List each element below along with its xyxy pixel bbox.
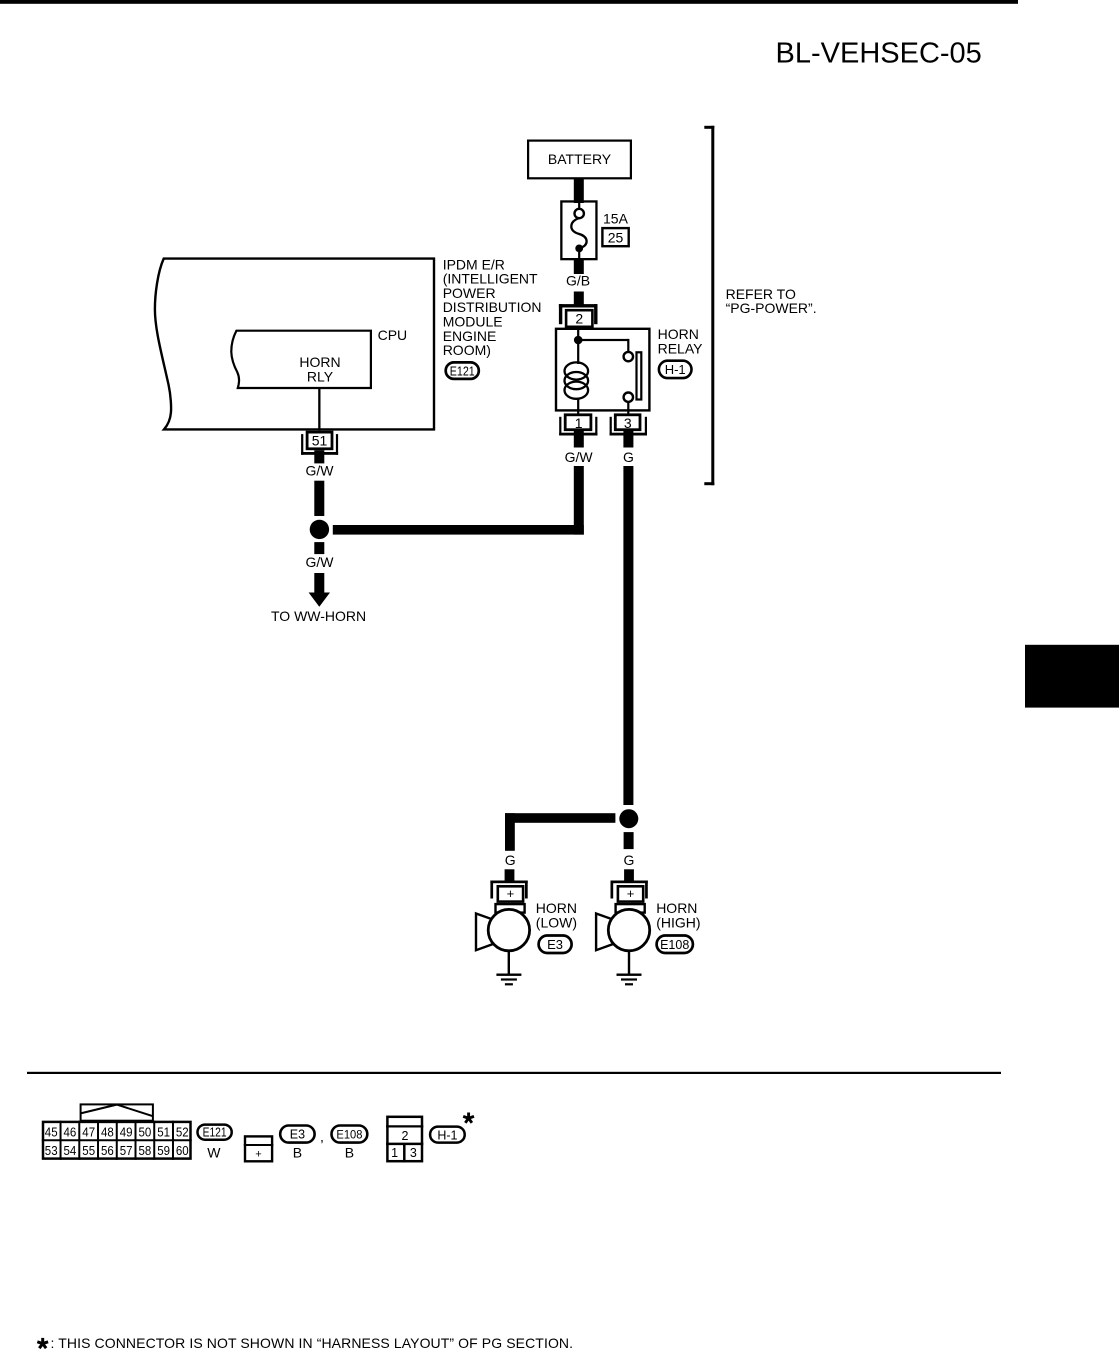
svg-text:50: 50: [139, 1125, 152, 1140]
svg-text:46: 46: [64, 1125, 77, 1140]
node dot: [574, 336, 583, 345]
IPDM E/R box: [155, 259, 434, 430]
refer-to label: [726, 286, 817, 316]
battery: [528, 141, 631, 179]
svg-text:55: 55: [82, 1143, 95, 1158]
svg-text:E3: E3: [290, 1128, 305, 1142]
ground (horn high): [617, 952, 642, 986]
refer-to bracket: [704, 126, 714, 485]
ground (horn low): [496, 952, 521, 986]
horn relay box: [556, 328, 649, 414]
horn high connector (+): [611, 881, 648, 902]
horizontal wire to junction (thick): [333, 525, 584, 535]
svg-text:BATTERY: BATTERY: [548, 151, 612, 167]
svg-text:E121: E121: [450, 364, 475, 378]
wire pin1 down to corner (thick): [574, 466, 584, 535]
svg-text:E108: E108: [336, 1128, 362, 1142]
svg-text:48: 48: [101, 1125, 114, 1140]
arrow to WW-HORN: [309, 573, 330, 607]
svg-text:15A: 15A: [603, 211, 629, 227]
connector code oval H-1 (legend): [430, 1127, 465, 1143]
wire stub below pin 3: [623, 431, 633, 448]
asterisk star (legend): [463, 1113, 474, 1123]
svg-text:57: 57: [120, 1143, 133, 1158]
svg-text:56: 56: [101, 1143, 114, 1158]
svg-text:58: 58: [139, 1143, 152, 1158]
svg-text:25: 25: [608, 229, 624, 245]
svg-text:+: +: [507, 886, 515, 901]
svg-text:H-1: H-1: [665, 362, 686, 377]
dashed wire below junction A: [314, 542, 324, 554]
svg-text:G: G: [624, 852, 635, 868]
fuse 15A: [561, 201, 596, 260]
svg-text:3: 3: [410, 1146, 417, 1160]
svg-text:H-1: H-1: [437, 1128, 457, 1142]
svg-text:59: 59: [157, 1143, 170, 1158]
svg-text:49: 49: [120, 1125, 133, 1140]
IPDM E/R name label: [443, 256, 542, 358]
fuse number box 25: [602, 228, 628, 246]
svg-text:54: 54: [64, 1143, 77, 1158]
junction dot B: [619, 809, 638, 828]
svg-text:3: 3: [624, 415, 632, 431]
svg-text:B: B: [345, 1144, 354, 1160]
horn connector legend (+): [244, 1136, 273, 1161]
svg-text:RELAY: RELAY: [658, 340, 704, 356]
svg-text:51: 51: [157, 1125, 170, 1140]
connector terminal 2 (horn relay): [559, 304, 598, 327]
footnote star: [37, 1338, 48, 1348]
svg-text:G: G: [623, 449, 634, 465]
wire fuse down (thick): [574, 259, 584, 274]
svg-text:G/W: G/W: [306, 554, 335, 570]
svg-text:1: 1: [575, 415, 583, 431]
svg-text:53: 53: [45, 1143, 58, 1158]
svg-text:RLY: RLY: [307, 368, 334, 384]
svg-text:45: 45: [45, 1125, 58, 1140]
svg-text:2: 2: [402, 1129, 409, 1143]
relay switch contact: [578, 339, 628, 341]
svg-text:52: 52: [176, 1125, 189, 1140]
svg-text:TO WW-HORN: TO WW-HORN: [271, 608, 366, 624]
HORN RLY label: [299, 354, 340, 384]
connector code oval E108 (legend): [332, 1126, 368, 1143]
svg-text:E3: E3: [547, 937, 563, 952]
CPU inner box: [231, 331, 371, 388]
wire pin3 down long (thick): [623, 466, 633, 805]
wire stub to horn high connector: [624, 869, 634, 881]
horn high label: [656, 900, 700, 930]
wire conn2 to node: [577, 328, 579, 340]
header bar: [0, 0, 1018, 4]
svg-text:CPU: CPU: [378, 327, 408, 343]
corner wire down to horn low: [505, 813, 515, 851]
svg-text:51: 51: [312, 433, 328, 449]
connector code oval E3: [539, 936, 572, 954]
connector code oval E121 (legend): [198, 1125, 232, 1140]
horn low label: [536, 900, 577, 930]
relay pin 1 connector: [559, 415, 597, 436]
svg-text:: THIS CONNECTOR IS NOT SHOWN: : THIS CONNECTOR IS NOT SHOWN IN “HARNES…: [51, 1335, 574, 1351]
section tab (page edge): [1025, 645, 1119, 708]
svg-text:47: 47: [82, 1125, 95, 1140]
wire CPU to pin 51 (thin): [318, 388, 320, 431]
relay name label: [658, 326, 704, 356]
svg-text:60: 60: [176, 1143, 189, 1158]
connector code oval E3 (legend): [280, 1126, 314, 1143]
wire G/B to connector 2 (thick): [574, 292, 584, 306]
svg-text:G/B: G/B: [566, 273, 590, 289]
svg-text:G/W: G/W: [306, 463, 335, 479]
dashed wire below junction B: [624, 832, 634, 849]
svg-text:(HIGH): (HIGH): [656, 915, 700, 931]
horizontal wire to horn low (thick): [505, 813, 615, 823]
wire stub below 51: [314, 450, 324, 463]
relay coil: [577, 340, 579, 364]
svg-text:E108: E108: [660, 938, 689, 952]
IPDM pin 51 connector: [301, 432, 338, 455]
svg-text:(LOW): (LOW): [536, 915, 577, 931]
svg-text:+: +: [627, 886, 635, 901]
connector code oval E108: [657, 936, 693, 954]
junction dot A: [310, 520, 329, 539]
separator line: [27, 1072, 1001, 1074]
svg-text:2: 2: [575, 311, 583, 327]
horn high symbol: [596, 904, 650, 951]
svg-text:G/W: G/W: [565, 449, 594, 465]
wire stub below pin 1: [574, 431, 584, 448]
wire 51 down to junction (thick): [314, 481, 324, 516]
svg-text:B: B: [293, 1144, 302, 1160]
svg-text:1: 1: [391, 1146, 398, 1160]
horn relay connector legend H-1: [386, 1117, 423, 1163]
svg-text:W: W: [207, 1144, 221, 1160]
wire stub to horn low connector: [505, 869, 515, 881]
connector code oval E121: [446, 362, 479, 379]
connector code oval H-1: [659, 361, 692, 378]
svg-text:ROOM): ROOM): [443, 342, 491, 358]
svg-text:E121: E121: [203, 1126, 227, 1140]
svg-text:,: ,: [320, 1129, 324, 1145]
svg-text:BL-VEHSEC-05: BL-VEHSEC-05: [776, 38, 982, 70]
svg-text:+: +: [255, 1149, 261, 1161]
horn low symbol: [476, 904, 530, 951]
wire battery to fuse (thick): [574, 178, 584, 203]
svg-text:“PG-POWER”.: “PG-POWER”.: [726, 300, 817, 316]
connector layout E121 grid: [42, 1104, 192, 1159]
horn low connector (+): [490, 881, 527, 902]
relay pin 3 connector: [610, 415, 647, 436]
svg-text:G: G: [505, 852, 516, 868]
